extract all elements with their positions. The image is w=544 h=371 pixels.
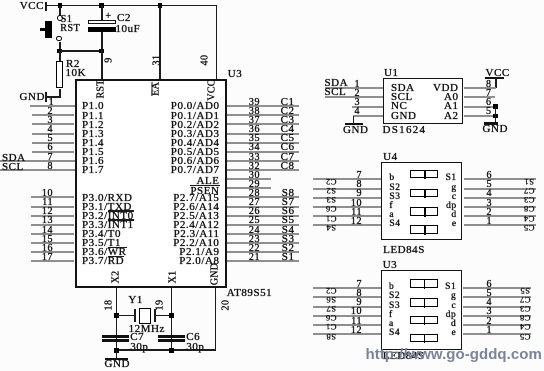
U3 pin name X1 (rotated): [168, 271, 177, 284]
U1 pin name SCL: [391, 93, 413, 102]
U3 pin name P3.4/T0: [82, 230, 121, 239]
U3b digit segment pair 3: [410, 316, 439, 325]
wire pin 32 (P0.7/AD7): [227, 169, 299, 171]
wire pin 38 (P0.1/AD1): [227, 114, 299, 116]
net label C8: [281, 162, 295, 171]
capacitor C7 bottom plate: [102, 339, 129, 341]
wire U3b pin 5: [463, 296, 531, 298]
U3 pin name P3.2/INT0: [82, 212, 134, 221]
pin number 29: [249, 180, 260, 189]
junction X2 at crystal: [114, 313, 119, 318]
U1 pin number 4: [354, 107, 360, 116]
junction U1 pin 6: [493, 104, 498, 109]
wire X2 to crystal: [116, 315, 134, 317]
net label C5 (U3b right, rotated): [520, 334, 531, 340]
U3b pin name S2: [389, 292, 400, 301]
net label C4: [281, 125, 295, 134]
U3 pin name P3.1/TXD: [82, 203, 132, 212]
capacitor C2 value 10uF: [116, 25, 141, 34]
pin number 7: [47, 153, 53, 162]
net label S7 (U3b left, rotated): [326, 306, 336, 312]
ground label GND (reset): [20, 93, 45, 102]
pin number 4: [47, 125, 53, 134]
pin number 16: [42, 244, 53, 253]
wire U3b pin 6: [463, 287, 531, 289]
U3 pin name X2 (rotated): [111, 271, 120, 284]
wire U4 pin 8: [313, 188, 381, 190]
wire U4 pin 10: [313, 206, 381, 208]
VCC port bar (U1): [485, 77, 505, 79]
pin number 22: [249, 244, 260, 253]
wire U3b pin 1: [463, 333, 531, 335]
wire U1 pin 8 VDD: [464, 87, 496, 89]
U4 pin name g: [451, 184, 456, 193]
pin number 9 (RST): [104, 57, 113, 63]
capacitor C6 value 30p: [186, 343, 204, 352]
U3 pin name PSEN (overline): [190, 187, 219, 196]
wire U3b pin 8: [313, 296, 381, 298]
pin number 33: [249, 153, 260, 162]
U1 pin number 7: [486, 89, 492, 98]
wire pin 4 (P1.3): [32, 133, 75, 135]
U3b part number LED84S: [383, 352, 425, 361]
pin number 36: [249, 125, 260, 134]
pin number 14: [42, 226, 53, 235]
ground symbol bar (U1 left): [345, 123, 363, 125]
U3 pin name EA (rotated, overline): [152, 82, 161, 96]
display U4 designator: [383, 153, 398, 162]
ground symbol bar (crystal): [105, 358, 128, 360]
net label S5 (U3b right, rotated): [520, 288, 530, 294]
resistor R2 designator: [66, 60, 80, 69]
wire pin 15 (P3.5/T1): [31, 242, 74, 244]
crystal Y1 value 12MHz: [129, 325, 165, 334]
U3b pin name f: [389, 311, 393, 320]
U3b pin number 9: [356, 298, 362, 307]
U3 pin name P2.3/A11: [174, 230, 220, 239]
U3b pin name d: [451, 320, 456, 329]
ground label GND (crystal): [105, 360, 130, 369]
wire reset node: [60, 50, 102, 52]
capacitor C7 value 30p: [130, 343, 148, 352]
pin number 17: [42, 253, 53, 262]
U1 pin name VDD: [433, 84, 458, 93]
net label S4 (U4 left, rotated): [326, 225, 336, 231]
wire U1 pin 7 A0: [464, 96, 495, 98]
net label S6: [282, 207, 295, 216]
wire pin 16 (P3.6/WR): [31, 251, 74, 253]
wire pin 39 (P0.0/AD0): [227, 105, 299, 107]
U3 pin name P1.7: [82, 166, 104, 175]
net label S2 (U4 left, rotated): [326, 188, 336, 194]
pin number 6: [47, 143, 53, 152]
wire R2 to GND branch: [47, 96, 61, 98]
U3b pin number 8: [356, 289, 362, 298]
net label C2 (U4 left, rotated): [325, 179, 336, 185]
junction on VCC rail at S1: [58, 3, 63, 8]
U4 pin name b: [389, 174, 394, 183]
pin number 40 (VCC): [201, 54, 210, 65]
ground symbol bar (U1 right): [484, 122, 498, 124]
pin number 37: [249, 116, 260, 125]
pin number 13: [42, 216, 53, 225]
U4 pin name S1: [446, 174, 457, 183]
U3 pin name P1.5: [82, 148, 104, 157]
wire pin 11 (P3.1/TXD): [31, 206, 74, 208]
pin number 34: [249, 143, 260, 152]
U3 pin name P2.4/A12: [173, 221, 219, 230]
pin number 30: [249, 171, 260, 180]
U3 pin name RST (rotated): [96, 80, 105, 99]
wire S1 to reset node: [59, 42, 61, 51]
net label C8 (U3b right, rotated): [520, 315, 531, 321]
wire reset node to R2: [59, 51, 61, 61]
temp sensor U1 DS1624 body: [383, 78, 463, 124]
U4 digit segment pair 2: [410, 189, 439, 198]
net label S1: [282, 253, 295, 262]
pin number 5: [47, 134, 53, 143]
wire VCC pin drop: [216, 6, 218, 80]
U3b pin name e: [452, 329, 457, 338]
U3b digit segment pair 2: [410, 298, 439, 307]
wire U1 pin 1 SDA: [325, 87, 383, 89]
U4 pin name dp: [446, 202, 457, 211]
LED display U3b body: [381, 270, 462, 350]
VCC port tick: [45, 2, 47, 11]
wire pin 13 (P3.3/INT1): [31, 224, 74, 226]
U3 pin name P1.1: [82, 112, 104, 121]
junction reset node left: [57, 49, 62, 54]
U3b pin number 10: [351, 307, 362, 316]
U3 pin name P3.0/RXD: [82, 194, 133, 203]
wire U1 pin 6 A1: [464, 106, 495, 108]
U4 pin number 5: [486, 180, 492, 189]
wire U4 pin 2: [464, 215, 536, 217]
wire pin 22 (P2.1/A9): [227, 251, 299, 253]
U3 pin name P0.6/AD6: [171, 157, 220, 166]
U3 pin name P1.4: [82, 139, 104, 148]
U3 pin name VCC (rotated): [208, 79, 217, 100]
U1 part number DS1624: [383, 126, 427, 135]
net label S4: [282, 226, 295, 235]
wire U3b pin 12: [313, 333, 381, 335]
U3b pin name c: [452, 302, 457, 311]
net label S7: [282, 198, 295, 207]
U3b pin number 1: [486, 326, 492, 335]
U3 pin name P2.7/A15: [173, 194, 219, 203]
U4 pin number 3: [486, 199, 492, 208]
net label C3: [281, 116, 295, 125]
pin number 38: [249, 107, 260, 116]
wire pin 5 (P1.4): [32, 142, 75, 144]
net label S6 (U3b left, rotated): [326, 297, 336, 303]
capacitor C2 bottom lead: [101, 32, 103, 51]
U4 pin name S3: [389, 193, 400, 202]
pin number 24: [249, 226, 260, 235]
wire U3b pin 9: [313, 306, 381, 308]
U3 pin name P3.7/RD: [82, 257, 124, 266]
U3b pin name S3: [389, 302, 400, 311]
junction X1 at crystal: [169, 313, 174, 318]
U3 pin name P3.3/INT1: [82, 221, 134, 230]
wire X1 pin down: [171, 288, 173, 350]
wire pin 25 (P2.4/A12): [227, 224, 299, 226]
U3 pin name P0.0/AD0: [171, 102, 220, 111]
wire U3b pin 11: [313, 324, 381, 326]
U1 designator: [384, 69, 399, 78]
net label C6 (U3b left, rotated): [325, 315, 336, 321]
switch S1 bottom terminal: [56, 36, 62, 42]
wire U3b pin 2: [463, 324, 531, 326]
display U3b designator: [383, 261, 398, 270]
capacitor C2 top plate: [88, 20, 116, 23]
wire reset node to RST pin: [101, 51, 103, 79]
wire U4 pin 1: [464, 224, 536, 226]
pin number 10: [42, 189, 53, 198]
U4 part number LED84S: [383, 246, 425, 255]
junction U1 pin 5: [493, 114, 498, 119]
pin number 32: [249, 162, 260, 171]
net label C6 (U4 left, rotated): [325, 206, 336, 212]
net label C1 (U4 left, rotated): [325, 216, 336, 222]
U1 pin number 2: [354, 89, 360, 98]
wire pin 3 (P1.2): [32, 123, 75, 125]
pin number 31 (EA): [152, 55, 161, 66]
U1 pin number 1: [354, 80, 360, 89]
net label C3 (U3b right, rotated): [520, 306, 531, 312]
U3b pin number 3: [486, 307, 492, 316]
pin number 23: [249, 235, 260, 244]
U4 pin name a: [389, 211, 394, 220]
wire U1 A1/A2 to ground: [495, 107, 497, 123]
capacitor C2 plus sign: [105, 12, 111, 21]
U3b pin name S1: [445, 283, 456, 292]
net label C3 (U4 right, rotated): [524, 197, 535, 203]
pin number 11: [42, 198, 53, 207]
net label SCL (U1): [325, 88, 347, 97]
capacitor C6 top plate: [158, 335, 185, 337]
U4 pin name d: [451, 211, 456, 220]
wire GND pin 20 down: [215, 288, 217, 350]
net label C1: [281, 98, 295, 107]
U4 pin name S2: [389, 184, 400, 193]
power label VCC (U1): [486, 69, 510, 78]
net label C4 (U4 right, rotated): [524, 216, 535, 222]
wire pin 8 (P1.7): [0, 169, 75, 171]
wire pin 30 (ALE): [227, 178, 272, 180]
wire U3b pin 10: [313, 315, 381, 317]
U1 pin name NC: [391, 102, 407, 111]
capacitor C7 label: [130, 333, 144, 342]
LED display U4 body: [381, 162, 462, 240]
wire pin 29 (PSEN): [227, 187, 272, 189]
pin number 2: [47, 107, 53, 116]
net label S1 (U4 right, rotated): [524, 179, 534, 185]
U3 pin name P0.7/AD7: [171, 166, 220, 175]
resistor R2 body: [56, 61, 63, 88]
U4 pin number 10: [351, 199, 362, 208]
U3b digit segment pair 1: [410, 279, 439, 288]
U3 pin name P1.6: [82, 157, 104, 166]
U4 digit segment pair 3: [410, 207, 439, 216]
wire ground rail (crystal): [116, 349, 215, 351]
net label SDA (left): [2, 154, 26, 163]
U3 pin name P1.0: [82, 102, 104, 111]
wire EA pin to VCC rail: [159, 6, 161, 80]
U3 pin name ALE: [196, 177, 219, 186]
net label S3: [282, 235, 295, 244]
wire pin 37 (P0.2/AD2): [227, 123, 299, 125]
junction on VCC rail at EA: [158, 3, 163, 8]
switch S1 top terminal: [57, 15, 63, 21]
U4 pin number 7: [356, 171, 362, 180]
wire crystal to X1: [156, 315, 172, 317]
U3 pin name P2.5/A13: [173, 212, 219, 221]
wire pin 33 (P0.6/AD6): [227, 160, 299, 162]
ground label GND (U1 left): [343, 126, 368, 135]
pin number 21: [249, 253, 260, 262]
U1 pin number 5: [486, 107, 492, 116]
net label C8 (U4 right, rotated): [524, 206, 535, 212]
wire pin 2 (P1.1): [32, 114, 75, 116]
net label C2 (U3b left, rotated): [325, 288, 336, 294]
U3b digit segment pair 4: [410, 334, 439, 343]
U3 pin name P0.4/AD4: [171, 139, 220, 148]
junction on VCC rail at C2: [99, 3, 104, 8]
wire pin 21 (P2.0/A8): [227, 260, 299, 262]
wire U4 pin 3: [464, 206, 536, 208]
wire U1 pin 2 SCL: [325, 96, 383, 98]
U3b pin name S4: [389, 329, 400, 338]
wire U3b pin 4: [463, 306, 531, 308]
wire U4 pin 5: [464, 188, 536, 190]
pin number 28: [249, 189, 260, 198]
switch S1 label RST: [60, 24, 80, 33]
U4 pin name c: [452, 193, 457, 202]
capacitor C7 top plate: [102, 335, 129, 337]
net label C7 (U4 right, rotated): [524, 188, 535, 194]
wire U3b pin 3: [463, 315, 531, 317]
pin number 27: [249, 198, 260, 207]
pin number 25: [249, 216, 260, 225]
wire pin 10 (P3.0/RXD): [31, 196, 74, 198]
wire pin 36 (P0.3/AD3): [227, 133, 299, 135]
U3 pin name P3.5/T1: [82, 239, 121, 248]
U4 digit segment pair 1: [410, 170, 439, 179]
pin number 39: [249, 98, 260, 107]
wire pin 1 (P1.0): [30, 105, 75, 107]
U3b pin number 5: [486, 289, 492, 298]
U3 part number AT89S51: [227, 289, 272, 298]
U3 pin name P2.6/A14: [173, 203, 219, 212]
U3b pin number 4: [486, 298, 492, 307]
switch S1 actuator: [45, 21, 53, 39]
U4 pin number 4: [486, 189, 492, 198]
crystal Y1 right plate: [154, 309, 156, 323]
U3 pin name P3.6/WR: [82, 248, 127, 257]
wire U4 pin 4: [464, 197, 536, 199]
capacitor C2 top lead: [101, 6, 103, 21]
U4 pin number 12: [351, 217, 362, 226]
wire U4 pin 11: [313, 215, 381, 217]
wire U4 pin 6: [464, 178, 536, 180]
U1 pin number 6: [486, 98, 492, 107]
pin number 18 (rotated): [105, 299, 114, 310]
U3 pin name P1.2: [82, 121, 104, 130]
watermark URL: [366, 346, 542, 363]
U4 pin number 9: [356, 189, 362, 198]
net label C5 (U4 right, rotated): [524, 225, 535, 231]
net label C4 (U3b right, rotated): [520, 324, 531, 330]
U3 pin name P1.3: [82, 130, 104, 139]
wire pin 7 (P1.6): [0, 160, 75, 162]
U3 pin name P2.0/A8: [179, 257, 219, 266]
pin number 20 (rotated): [221, 299, 230, 310]
U3b pin number 12: [351, 326, 362, 335]
wire pin 28 (P2.7/A15): [227, 196, 299, 198]
wire pin 6 (P1.5): [32, 151, 75, 153]
net label S8 (U3b left, rotated): [326, 334, 336, 340]
wire pin 35 (P0.4/AD4): [227, 142, 299, 144]
pin number 12: [42, 207, 53, 216]
capacitor C6 label: [186, 333, 200, 342]
crystal Y1 body: [139, 308, 151, 324]
U4 pin number 2: [486, 208, 492, 217]
net label S5: [282, 216, 295, 225]
net label SDA (U1): [325, 79, 349, 88]
junction ground rail left: [114, 348, 119, 353]
wire VCC rail to S1: [59, 6, 61, 17]
U4 pin name S4: [389, 220, 400, 229]
ground label GND (U1 right): [483, 125, 508, 134]
U3b pin number 2: [486, 317, 492, 326]
U1 pin name A2: [444, 112, 459, 121]
wire U4 pin 7: [313, 178, 381, 180]
U4 pin number 1: [486, 217, 492, 226]
U3b pin number 11: [351, 317, 362, 326]
op IC U3 AT89S51 body: [75, 79, 227, 288]
net label SCL (left): [2, 163, 24, 172]
U4 digit segment pair 4: [410, 225, 439, 234]
junction reset node right: [99, 49, 104, 54]
wire pin 17 (P3.7/RD): [31, 260, 74, 262]
wire U4 pin 12: [313, 224, 381, 226]
wire pin 27 (P2.6/A14): [227, 206, 299, 208]
U4 pin number 8: [356, 180, 362, 189]
resistor R2 value 10K: [66, 69, 87, 78]
junction ground rail right: [169, 348, 174, 353]
wire pin 14 (P3.4/T0): [31, 233, 74, 235]
net label C5: [281, 134, 295, 143]
U4 pin number 6: [486, 171, 492, 180]
pin number 26: [249, 207, 260, 216]
pin number 19 (rotated): [156, 299, 165, 310]
U3 pin name P0.5/AD5: [171, 148, 220, 157]
U3 pin name P0.2/AD2: [171, 121, 220, 130]
U3b pin name a: [389, 320, 394, 329]
switch S1 designator: [61, 15, 73, 24]
net label C7 (U3b right, rotated): [520, 297, 531, 303]
U3 pin name P2.1/A9: [179, 248, 219, 257]
wire ground stub: [116, 350, 118, 358]
net label C2: [281, 107, 295, 116]
pin number 15: [42, 235, 53, 244]
net label C1 (U3b left, rotated): [325, 324, 336, 330]
net label S2: [282, 244, 295, 253]
U3b pin name b: [389, 283, 394, 292]
GND port tick: [45, 92, 47, 102]
net label C6: [281, 143, 295, 152]
